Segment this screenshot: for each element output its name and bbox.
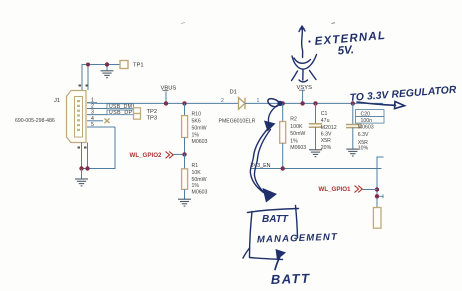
svg-text:5K6: 5K6 xyxy=(192,118,201,124)
svg-text:X5R: X5R xyxy=(321,138,331,144)
wire pin5 shield route xyxy=(82,127,116,169)
stray pen speck xyxy=(181,23,185,24)
pin 1 xyxy=(87,102,97,104)
svg-text:2: 2 xyxy=(91,104,94,110)
svg-text:690-005-298-486: 690-005-298-486 xyxy=(15,118,55,124)
svg-text:WL_GPIO2: WL_GPIO2 xyxy=(130,152,163,159)
junction 3V3_EN / R2 xyxy=(281,166,285,170)
resistor R2 xyxy=(281,101,285,105)
svg-text:R10: R10 xyxy=(192,111,202,117)
testpoint TP1 xyxy=(120,61,128,69)
C20 boxed value xyxy=(356,116,385,123)
svg-text:1%: 1% xyxy=(192,183,200,189)
svg-text:100K: 100K xyxy=(290,124,303,130)
junction VBUS xyxy=(164,101,168,105)
capacitor C1 xyxy=(313,101,317,105)
svg-text:100n: 100n xyxy=(361,118,373,124)
junction shield bottom right xyxy=(85,166,89,170)
junction R10 top xyxy=(182,101,186,105)
svg-text:D1: D1 xyxy=(230,90,237,96)
svg-text:MANAGEMENT: MANAGEMENT xyxy=(257,232,338,246)
pin 3 xyxy=(87,114,107,116)
C20 boxed designator xyxy=(356,110,385,117)
junction ground stub xyxy=(105,62,109,66)
net VBUS stub xyxy=(165,92,167,104)
resistor R1 xyxy=(184,154,186,168)
pin label marks bottom xyxy=(78,147,87,149)
svg-text:WL_GPIO1: WL_GPIO1 xyxy=(319,186,352,193)
svg-text:50mW: 50mW xyxy=(290,131,305,137)
net label USB_DP boxed xyxy=(107,110,134,115)
wire diode cathode to VSYS xyxy=(245,102,383,104)
junction VSYS xyxy=(300,101,304,105)
svg-text:TO 3.3V REGULATOR: TO 3.3V REGULATOR xyxy=(349,85,457,104)
svg-text:3V3_EN: 3V3_EN xyxy=(251,163,271,169)
svg-text:M0603: M0603 xyxy=(358,124,374,130)
handwriting: external 5V arrow xyxy=(292,26,317,82)
svg-text:R1: R1 xyxy=(192,163,199,169)
junction R10/R1 xyxy=(182,152,186,156)
svg-text:R2: R2 xyxy=(290,117,297,123)
svg-text:10K: 10K xyxy=(192,170,202,176)
svg-text:5: 5 xyxy=(91,122,94,128)
svg-text:M2012: M2012 xyxy=(321,125,337,131)
testpoint TP2 pad xyxy=(134,108,141,114)
svg-text:47u: 47u xyxy=(321,118,330,124)
no-connect X on pin4 xyxy=(105,119,110,124)
handwriting: ink blob at VSYS node xyxy=(268,99,281,107)
testpoint TP3 pad xyxy=(134,114,141,120)
capacitor C20 xyxy=(351,101,355,105)
svg-text:BATT: BATT xyxy=(271,271,311,287)
pin 5 xyxy=(87,126,115,128)
svg-text:M0603: M0603 xyxy=(192,189,208,195)
stray pen speck 2 xyxy=(332,22,336,25)
wire ground stub xyxy=(106,65,108,71)
junction shield bottom left xyxy=(79,166,83,170)
svg-text:TP2: TP2 xyxy=(147,109,158,115)
svg-text:2: 2 xyxy=(221,98,224,104)
handwriting: mid arrowhead xyxy=(264,121,276,132)
wire WL_GPIO1 to node xyxy=(363,189,378,191)
svg-text:J1: J1 xyxy=(54,98,60,104)
junction lower with tick xyxy=(375,194,379,198)
ground near TP1 xyxy=(101,71,114,78)
svg-text:50mW: 50mW xyxy=(192,126,207,132)
resistor R10 xyxy=(184,103,186,115)
svg-text:4: 4 xyxy=(91,116,94,122)
resistor bottom right xyxy=(373,208,381,229)
svg-text:TP1: TP1 xyxy=(133,63,144,69)
junction shield top xyxy=(86,63,90,67)
ground under J1 xyxy=(75,179,88,186)
ground under R1 xyxy=(178,199,191,206)
svg-text:6.3V: 6.3V xyxy=(358,132,369,138)
net VSYS stub xyxy=(302,91,304,104)
wire VBUS main horizontal xyxy=(97,102,239,104)
svg-text:20%: 20% xyxy=(321,145,332,151)
svg-text:50mW: 50mW xyxy=(192,177,207,183)
wire shield pins bottom xyxy=(81,143,83,169)
wire TP1/shield net horizontal xyxy=(82,65,120,91)
svg-text:6.3V: 6.3V xyxy=(321,132,332,138)
connector J1 body xyxy=(67,91,87,143)
ground under C20 xyxy=(346,149,359,156)
wire ground stub bottom xyxy=(81,169,83,179)
svg-text:10%: 10% xyxy=(358,146,369,152)
svg-text:5V.: 5V. xyxy=(337,44,354,57)
wire shield pin2 vertical xyxy=(87,65,89,91)
handwriting: batt management box xyxy=(243,206,299,260)
handwriting: final arrowhead xyxy=(263,188,278,203)
connector J1 tongue xyxy=(75,97,83,138)
svg-text:1%: 1% xyxy=(192,132,200,138)
handwriting: up arrow into box xyxy=(276,249,287,260)
pin 4 xyxy=(87,120,103,122)
svg-text:USB_DM: USB_DM xyxy=(109,104,132,110)
svg-text:USB_DP: USB_DP xyxy=(109,110,133,116)
handwriting: long arrow to batt box xyxy=(250,106,277,195)
svg-text:M0603: M0603 xyxy=(192,139,208,145)
junction WL_GPIO1 xyxy=(375,187,379,191)
svg-text:BATT: BATT xyxy=(262,214,289,225)
connector J1 contacts xyxy=(77,100,80,131)
svg-text:3: 3 xyxy=(91,110,94,116)
wire vertical right branch xyxy=(377,157,384,208)
svg-text:1%: 1% xyxy=(290,138,298,144)
svg-text:C1: C1 xyxy=(321,111,328,117)
net label USB_DM boxed xyxy=(107,104,134,109)
handwriting: arrow to regulator xyxy=(357,102,405,109)
svg-text:PMEG6010ELR: PMEG6010ELR xyxy=(219,118,256,124)
pin label marks top xyxy=(79,85,89,87)
svg-text:TP3: TP3 xyxy=(147,116,158,122)
wire WL_GPIO2 to node xyxy=(174,153,185,155)
net 3V3_EN wire xyxy=(250,168,382,170)
ground under C1 xyxy=(309,150,322,157)
svg-text:M0603: M0603 xyxy=(290,145,306,151)
pin 2 xyxy=(87,108,107,110)
